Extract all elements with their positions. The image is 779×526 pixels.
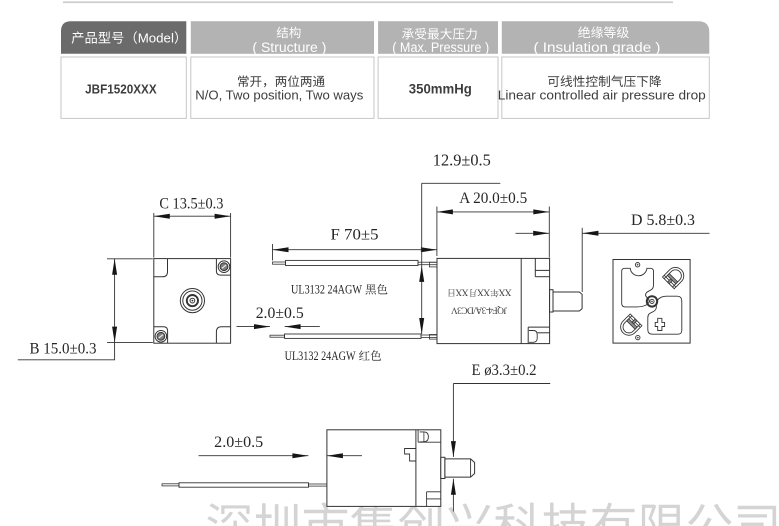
svg-text:JQF4-3A/DC3V: JQF4-3A/DC3V — [451, 304, 507, 314]
dimension 12.9 vertical line — [421, 183, 423, 334]
nozzle barb (bottom view) — [445, 459, 475, 477]
svg-text:2.0±0.5: 2.0±0.5 — [214, 434, 263, 451]
red wire body tab — [429, 335, 437, 340]
svg-text:12.9±0.5: 12.9±0.5 — [433, 151, 491, 170]
svg-text:Model: Model — [138, 31, 174, 46]
svg-text:Linear controlled air pressure: Linear controlled air pressure drop — [498, 88, 706, 102]
table data cell — [191, 57, 374, 118]
valve connector bottom-left — [617, 314, 642, 339]
svg-text:UL3132 24AGW: UL3132 24AGW — [291, 282, 363, 297]
bottom view body outline — [327, 430, 441, 507]
dimension A extension lines — [436, 207, 438, 257]
bottom view staircase notch — [405, 449, 416, 462]
end view center circles — [647, 296, 657, 306]
small circle bottom — [636, 335, 640, 339]
dimension B extension lines — [107, 258, 153, 260]
nozzle root (bottom view) — [441, 457, 445, 478]
svg-text:XX: XX — [498, 287, 511, 297]
table data cell — [502, 57, 710, 118]
screw bottom-left — [155, 331, 167, 343]
header text 产品型号（Model） — [72, 31, 84, 43]
dimension E upper arrow — [452, 384, 454, 457]
svg-text:( Insulation grade ): ( Insulation grade ) — [534, 40, 661, 55]
bottom view boundary line — [415, 430, 417, 507]
front view bottom-right corner fillet — [216, 327, 230, 344]
valve connector top-right — [662, 264, 687, 289]
bottom view bottom-right slot — [426, 492, 428, 507]
svg-text:2.0±0.5: 2.0±0.5 — [256, 305, 304, 322]
nozzle barb (middle view) — [553, 292, 582, 311]
end view top-left pocket — [622, 268, 654, 307]
svg-text:C 13.5±0.3: C 13.5±0.3 — [159, 196, 223, 213]
end view bottom-right pocket — [648, 296, 682, 334]
front view top-right screw pad — [216, 259, 230, 276]
svg-text:B 15.0±0.3: B 15.0±0.3 — [30, 340, 97, 357]
dimension F extension line — [272, 244, 274, 261]
bottom view wire bare tip — [162, 484, 179, 486]
bottom view wire terminal — [309, 484, 327, 486]
header text 承受最大压力 (Max. Pressure) — [402, 28, 414, 39]
dimension C extension lines — [153, 213, 155, 258]
svg-text:JBF1520XXX: JBF1520XXX — [85, 82, 157, 97]
dimension C line — [154, 215, 231, 217]
body/head boundary line — [520, 258, 522, 343]
nozzle root (middle view) — [550, 290, 553, 312]
table header cell: structure — [191, 21, 374, 54]
screw top-right — [218, 261, 230, 273]
dimension 2.0 (middle) arrows — [237, 326, 271, 328]
black wire bare tip — [273, 262, 286, 264]
svg-text:( Max. Pressure ): ( Max. Pressure ) — [392, 40, 489, 55]
dimension 2.0 (bottom) arrows — [199, 455, 309, 457]
header text 结构 (Structure) — [277, 27, 288, 39]
center port concentric circles — [180, 289, 204, 313]
svg-text:XX: XX — [455, 287, 468, 297]
svg-text:A 20.0±0.5: A 20.0±0.5 — [459, 190, 527, 207]
red wire terminal — [421, 335, 437, 338]
data text 常开，两位两通 — [238, 75, 249, 87]
dimension B line with leader — [18, 259, 115, 360]
svg-text:( Structure ): ( Structure ) — [252, 40, 326, 55]
front view bottom-left screw pad — [154, 327, 168, 344]
table header cell: model — [61, 21, 186, 54]
black wire terminal — [418, 262, 437, 265]
plus mark — [655, 318, 664, 330]
black wire insulation — [286, 260, 419, 265]
table header cell: max pressure — [378, 21, 498, 54]
rotated label on body — [448, 287, 511, 315]
data text 可线性控制气压下降 — [548, 76, 559, 87]
svg-text:350mmHg: 350mmHg — [409, 82, 472, 97]
table header cell: insulation grade — [502, 21, 710, 54]
svg-text:XX: XX — [477, 287, 490, 297]
watermark 深圳市集创兴科技有限公司 — [207, 503, 251, 526]
bottom view top-right cup detail — [417, 430, 419, 442]
svg-text:N/O, Two position, Two ways: N/O, Two position, Two ways — [195, 88, 363, 102]
head bottom-right slot — [528, 326, 549, 328]
top divider line — [63, 1, 673, 3]
svg-text:UL3132 24AGW: UL3132 24AGW — [285, 348, 357, 363]
front view top-left corner fillet — [154, 259, 168, 277]
head bottom cup detail — [529, 331, 537, 343]
front view plate outline — [154, 259, 231, 344]
dimension E lower arrow — [452, 479, 454, 512]
red wire bare tip — [270, 335, 285, 337]
small circle top — [635, 263, 639, 267]
dimension F line — [273, 249, 437, 251]
svg-text:F 70±5: F 70±5 — [331, 227, 379, 244]
svg-text:E ø3.3±0.2: E ø3.3±0.2 — [472, 362, 537, 379]
table data cell — [61, 57, 186, 118]
end view outline — [613, 260, 690, 344]
head top-right slot — [534, 258, 536, 276]
dimension A line — [437, 211, 549, 213]
dimension D arrows — [516, 232, 550, 234]
dimension D extension line — [581, 228, 583, 292]
header text 绝缘等级 (Insulation grade) — [578, 26, 590, 38]
black wire body tab — [429, 262, 437, 267]
bottom view wire insulation — [179, 483, 309, 487]
svg-text:D 5.8±0.3: D 5.8±0.3 — [631, 212, 695, 229]
valve body side view outline — [437, 258, 550, 343]
red wire insulation — [285, 334, 422, 338]
dimension 12.9 leader underline — [422, 182, 501, 184]
dimension E leader underline — [453, 383, 550, 385]
table data cell — [378, 57, 498, 118]
